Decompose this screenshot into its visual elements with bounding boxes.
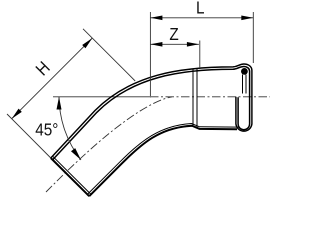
svg-text:45°: 45° [35,119,58,139]
svg-text:H: H [32,57,54,79]
svg-text:Z: Z [169,24,178,44]
svg-text:L: L [196,0,205,18]
